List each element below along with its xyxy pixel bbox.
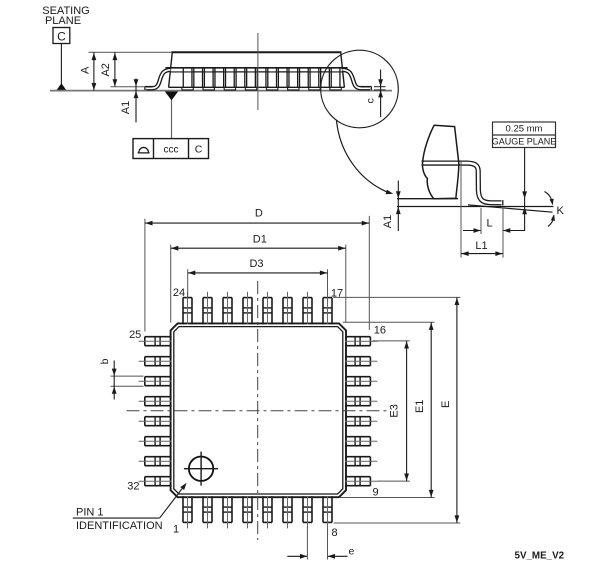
lead detail circle [321, 50, 399, 128]
svg-text:5V_ME_V2: 5V_ME_V2 [515, 550, 565, 561]
package body side view top [89, 51, 173, 53]
svg-text:ccc: ccc [164, 144, 179, 155]
body left edge [169, 52, 173, 87]
side view centerline [257, 33, 259, 110]
svg-text:E3: E3 [389, 404, 401, 417]
svg-text:C: C [195, 144, 203, 156]
svg-text:D: D [255, 208, 263, 220]
svg-text:A2: A2 [100, 63, 112, 76]
svg-text:e: e [349, 546, 355, 558]
lead tab front 7 [309, 68, 311, 88]
pin 15 [345, 356, 370, 358]
detail body bottom line [397, 198, 458, 200]
lead tab front 8 [330, 68, 332, 88]
svg-text:GAUGE PLANE: GAUGE PLANE [492, 137, 557, 147]
svg-text:L1: L1 [475, 240, 487, 252]
svg-text:L: L [486, 218, 492, 230]
lead tab back 6 [299, 68, 301, 88]
svg-text:24: 24 [173, 287, 185, 299]
pin 28 [145, 396, 172, 398]
dimension D1 [170, 245, 172, 323]
pin 18 [302, 298, 304, 325]
pin 29 [145, 416, 172, 418]
vertical centerline [257, 281, 259, 540]
lead tab front 4 [246, 68, 248, 88]
svg-text:D1: D1 [253, 233, 267, 245]
dimension D [144, 219, 146, 332]
pin 23 [202, 298, 204, 325]
ccc leader triangle [165, 92, 178, 101]
detail leader curve [337, 120, 391, 193]
left bent lead [146, 70, 170, 89]
dimension E1 [343, 321, 435, 323]
svg-text:1: 1 [173, 524, 179, 536]
pin 31 [145, 456, 172, 458]
dimension A2 [114, 52, 116, 87]
pin 22 [222, 298, 224, 325]
datum box C [53, 28, 70, 44]
svg-text:c: c [364, 98, 376, 103]
pin 4 [242, 496, 244, 522]
svg-text:16: 16 [374, 325, 386, 337]
pin 3 [222, 496, 224, 522]
svg-text:0.25 mm: 0.25 mm [506, 124, 543, 135]
lead tab front 2 [203, 68, 205, 88]
svg-text:PLANE: PLANE [45, 15, 81, 27]
lead tab back 3 [235, 68, 237, 88]
pin 24 [182, 298, 184, 325]
svg-text:A1: A1 [382, 215, 394, 228]
lead tab back 2 [214, 68, 216, 88]
gauge plane dimension line [524, 148, 526, 232]
horizontal centerline [127, 410, 390, 412]
svg-text:25: 25 [129, 329, 141, 341]
dimension D3 [187, 269, 189, 298]
svg-text:C: C [57, 30, 66, 44]
pin 12 [345, 416, 370, 418]
pin 2 [202, 496, 204, 522]
pin 27 [145, 376, 172, 378]
svg-text:17: 17 [331, 287, 343, 299]
datum leader line [60, 44, 62, 85]
pin 19 [282, 298, 284, 325]
lead tab back 5 [277, 68, 279, 88]
pin 5 [262, 496, 264, 522]
0.25 mm gauge plane box [493, 122, 556, 148]
pin 6 [282, 496, 284, 522]
svg-text:E: E [440, 401, 452, 408]
pin 20 [262, 298, 264, 325]
A2/A1 body bottom extension line [111, 86, 145, 88]
svg-text:8: 8 [331, 527, 337, 539]
top view body inner outline [174, 327, 343, 494]
dimension e [306, 527, 308, 560]
dimension E3 [373, 340, 410, 342]
pin 8 [322, 496, 324, 522]
pin 30 [145, 436, 172, 438]
gauge detail body blob [422, 125, 458, 199]
pin 26 [145, 356, 172, 358]
svg-text:A1: A1 [120, 101, 132, 114]
dimension L [480, 208, 482, 234]
tolerance frame ccc C [133, 139, 209, 159]
body right edge [341, 52, 345, 87]
detail inclined foot line [468, 205, 553, 212]
dimension A1 detail [397, 181, 399, 232]
lead band top line [166, 67, 348, 69]
lead tab back 1 [193, 68, 195, 88]
angle K arcs [545, 192, 553, 205]
svg-text:E1: E1 [414, 400, 426, 413]
dimension b [111, 375, 144, 377]
body bottom line [169, 86, 345, 88]
pin 11 [345, 436, 370, 438]
pin 32 [145, 476, 172, 478]
seating plane line [50, 90, 392, 92]
svg-text:b: b [99, 358, 111, 364]
svg-text:IDENTIFICATION: IDENTIFICATION [76, 520, 163, 532]
detail seating plane line [397, 206, 554, 208]
svg-text:9: 9 [373, 487, 379, 499]
pin 10 [345, 456, 370, 458]
datum triangle on seating plane [56, 83, 66, 90]
svg-text:32: 32 [127, 481, 139, 493]
dimension A [93, 52, 95, 90]
pin 7 [302, 496, 304, 522]
svg-text:A: A [80, 66, 92, 74]
pin 1 identification circle [189, 457, 213, 481]
lead band inner line [171, 71, 343, 73]
lead tab front 5 [267, 68, 269, 88]
lead tab front 3 [225, 68, 227, 88]
lead tab front 1 [182, 68, 184, 88]
dimension L1 [460, 162, 462, 258]
lead tab back 7 [320, 68, 322, 88]
dimension A1 side view [135, 79, 137, 123]
top view package body [171, 323, 346, 497]
pin 25 [145, 336, 172, 338]
pin 14 [345, 376, 370, 378]
pin 1 [182, 496, 184, 522]
dimension c [374, 86, 386, 88]
dimension E [333, 296, 460, 298]
lead tab front 6 [288, 68, 290, 88]
pin 17 [322, 298, 324, 325]
right bent lead [343, 70, 371, 89]
gauge detail lead [422, 163, 502, 203]
pin 13 [345, 396, 370, 398]
svg-text:D3: D3 [249, 258, 263, 270]
svg-text:PIN 1: PIN 1 [76, 506, 104, 518]
svg-text:K: K [557, 205, 565, 217]
pin 21 [242, 298, 244, 325]
pin 9 [345, 476, 370, 478]
pin 16 [345, 336, 370, 338]
lead tab back 4 [256, 68, 258, 88]
